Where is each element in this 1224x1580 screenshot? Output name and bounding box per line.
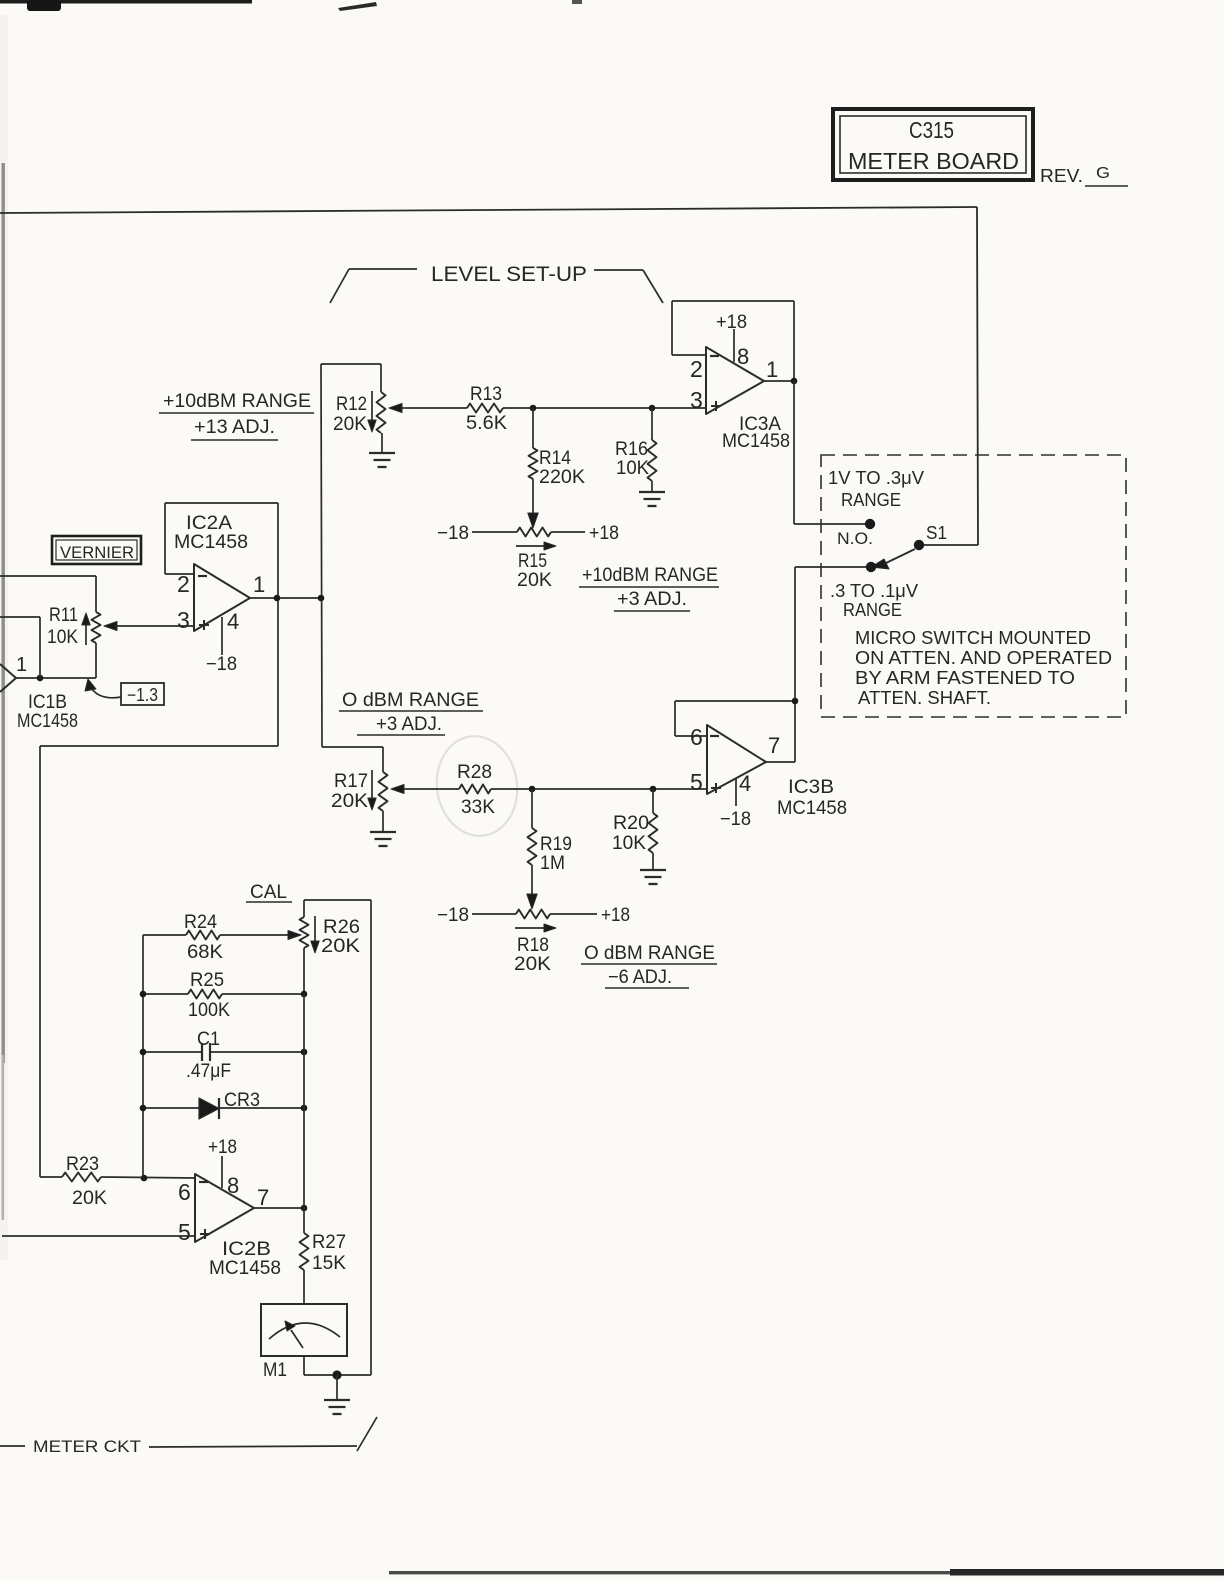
node: R25 right <box>301 991 308 998</box>
svg-text:−1.3: −1.3 <box>127 685 158 705</box>
wire: IC3B output pin7 <box>766 761 795 763</box>
wire: R14 to R15 wiper (arrow) <box>532 479 534 513</box>
svg-text:−18: −18 <box>437 905 469 926</box>
svg-text:R16: R16 <box>615 439 648 460</box>
svg-text:RANGE: RANGE <box>843 600 902 620</box>
resistor R24 68K <box>143 912 288 963</box>
label: O dBM RANGE -6 ADJ. <box>581 943 717 988</box>
node: junction R20 / IC3B pin5 <box>650 786 657 793</box>
svg-text:RANGE: RANGE <box>841 490 901 510</box>
resistor R14 220K <box>529 408 586 488</box>
node: IC3A output junction <box>791 378 798 385</box>
resistor R20 10K <box>612 789 658 869</box>
box: IC2A label / feedback <box>165 503 278 746</box>
svg-text:R12: R12 <box>336 394 367 415</box>
svg-text:C1: C1 <box>197 1029 220 1050</box>
svg-text:R13: R13 <box>470 384 502 405</box>
svg-text:R25: R25 <box>190 970 224 991</box>
node: IC2A output/feedback junction <box>274 595 281 602</box>
svg-text:R23: R23 <box>66 1154 99 1175</box>
ground below meter <box>324 1375 350 1414</box>
svg-text:+18: +18 <box>716 312 747 333</box>
svg-text:10K: 10K <box>612 833 646 854</box>
capacitor C1 .47uF <box>143 1029 304 1082</box>
wire: R13 to pin3 node <box>503 407 706 409</box>
op-amp IC2A MC1458 <box>165 564 265 633</box>
node: CR3 left <box>140 1105 147 1112</box>
wire: R26 bottom rail to output node <box>303 994 305 1208</box>
svg-text:100K: 100K <box>188 1000 230 1021</box>
svg-text:R11: R11 <box>49 605 78 626</box>
svg-text:BY ARM FASTENED TO: BY ARM FASTENED TO <box>855 668 1075 688</box>
svg-text:R17: R17 <box>334 771 368 792</box>
svg-text:1: 1 <box>766 357 778 382</box>
wire: R28 to pin5 node <box>491 788 707 790</box>
svg-text:20K: 20K <box>514 954 551 975</box>
revision label REV. G <box>1040 165 1128 186</box>
VERNIER label box <box>52 536 141 564</box>
svg-text:MC1458: MC1458 <box>722 431 790 452</box>
svg-text:R26: R26 <box>323 917 360 938</box>
svg-text:−6 ADJ.: −6 ADJ. <box>608 967 672 988</box>
potentiometer R11 10K <box>47 605 117 678</box>
svg-text:IC2B: IC2B <box>222 1239 271 1260</box>
svg-text:R27: R27 <box>312 1232 346 1253</box>
power -18 to IC3B pin 4 <box>720 771 751 830</box>
svg-text:.47μF: .47μF <box>186 1061 231 1082</box>
wire: R26 top to right rail <box>304 899 371 901</box>
wire: IC2B output pin 7 <box>254 1207 304 1209</box>
svg-text:C315: C315 <box>909 117 954 143</box>
svg-text:2: 2 <box>690 356 703 382</box>
svg-text:ON ATTEN. AND OPERATED: ON ATTEN. AND OPERATED <box>855 648 1112 668</box>
svg-text:33K: 33K <box>461 797 495 818</box>
svg-text:IC1B: IC1B <box>28 692 67 713</box>
svg-text:5.6K: 5.6K <box>466 413 507 434</box>
node: junction R16 / IC3A pin3 <box>649 405 656 412</box>
svg-text:4: 4 <box>739 771 751 796</box>
potentiometer R12 20K <box>333 364 408 452</box>
label: .3 TO .1uV RANGE <box>830 581 918 620</box>
svg-text:+3 ADJ.: +3 ADJ. <box>376 714 442 735</box>
wire: R23 to IC2B pin 6 <box>101 1177 195 1178</box>
svg-text:8: 8 <box>737 344 749 369</box>
ground below R17 <box>370 831 396 833</box>
svg-text:.3 TO .1μV: .3 TO .1μV <box>830 581 918 601</box>
wire: right rail (R26 top to meter return) <box>370 900 372 1375</box>
label: METER CKT with leader <box>0 1417 377 1456</box>
label: 1V TO .3uV RANGE <box>828 468 924 510</box>
svg-text:S1: S1 <box>926 523 947 543</box>
node: CR3 right <box>301 1105 308 1112</box>
svg-text:−18: −18 <box>437 523 469 544</box>
svg-text:LEVEL SET-UP: LEVEL SET-UP <box>431 263 587 286</box>
potentiometer R17 20K <box>331 770 407 831</box>
svg-text:CAL: CAL <box>250 882 287 903</box>
svg-text:7: 7 <box>257 1185 269 1210</box>
svg-text:CR3: CR3 <box>224 1090 260 1111</box>
svg-text:MC1458: MC1458 <box>777 798 847 819</box>
wire: top-left input to R11 top <box>0 576 96 612</box>
svg-text:R19: R19 <box>540 834 572 855</box>
svg-text:O dBM RANGE: O dBM RANGE <box>584 943 715 964</box>
svg-text:−18: −18 <box>206 654 237 675</box>
svg-text:+18: +18 <box>208 1137 237 1158</box>
resistor R16 10K <box>615 408 657 491</box>
node: C1 right <box>301 1049 308 1056</box>
op-amp IC3A MC1458 <box>672 347 790 452</box>
label: +10dBM RANGE +3 ADJ. <box>579 565 719 611</box>
wire: meter return to right rail <box>304 1356 371 1375</box>
wire: input bus from attenuator (top edge) to switch S1 <box>0 207 978 545</box>
op-amp IC2B MC1458 <box>178 1174 281 1279</box>
wire: R12 wiper to IC3A pin 3 <box>408 407 467 409</box>
node: IC2A output bus junction <box>318 595 325 602</box>
switch S1 lower contact (.3 to .1uV) <box>866 562 876 572</box>
svg-text:1M: 1M <box>540 853 565 874</box>
svg-text:O dBM RANGE: O dBM RANGE <box>342 690 479 711</box>
switch S1 N.O. contact <box>837 519 875 548</box>
diode CR3 <box>143 1090 304 1119</box>
svg-text:2: 2 <box>177 571 190 597</box>
resistor R25 100K <box>143 970 304 1021</box>
callout: -1.3 level with arrow <box>85 679 164 705</box>
wire: IC2A output to node A <box>250 597 321 599</box>
svg-text:+18: +18 <box>589 523 619 544</box>
svg-text:4: 4 <box>227 609 239 634</box>
op-amp IC3B MC1458 <box>675 724 847 819</box>
resistor R28 33K <box>457 762 495 818</box>
svg-text:220K: 220K <box>539 467 585 488</box>
label: LEVEL SET-UP header <box>330 263 663 303</box>
svg-text:IC2A: IC2A <box>186 513 232 534</box>
wire: R11 wiper to IC2A pin 3 <box>115 625 194 627</box>
meter M1 <box>261 1304 347 1381</box>
ground below R20 <box>640 869 666 871</box>
svg-text:15K: 15K <box>312 1253 346 1274</box>
wire: IC3B feedback output to pin 6 <box>675 701 795 762</box>
svg-text:R28: R28 <box>457 762 492 783</box>
svg-text:20K: 20K <box>72 1188 107 1209</box>
node: junction R28/R19 <box>529 786 536 793</box>
resistor R23 20K <box>62 1154 107 1209</box>
wire: IC1B junction up and off page left <box>0 617 40 678</box>
svg-text:68K: 68K <box>187 942 223 963</box>
wire: IC3A output down to N.O. contact <box>794 381 865 524</box>
wire: IC3A feedback output to pin 2 <box>672 301 794 381</box>
wire: IC2A feedback to R23 (left drop) <box>40 746 278 1177</box>
title block C315 METER BOARD <box>833 109 1033 180</box>
svg-text:M1: M1 <box>263 1360 287 1381</box>
svg-text:20K: 20K <box>331 791 368 812</box>
node: junction R13/R14 <box>530 405 537 412</box>
svg-text:1: 1 <box>16 654 27 676</box>
power -18 to IC2A pin 4 <box>206 609 239 675</box>
svg-text:R20: R20 <box>613 813 649 834</box>
svg-text:MICRO SWITCH MOUNTED: MICRO SWITCH MOUNTED <box>855 628 1091 648</box>
svg-text:R18: R18 <box>517 935 549 956</box>
wire: R24 left rail down to IC2B pin6 <box>142 935 144 1177</box>
power +18 to IC3A pin 8 <box>716 312 749 369</box>
resistor R13 5.6K <box>466 384 507 434</box>
wire: node A (IC2A output bus) vertical to R12/R17 <box>321 364 383 772</box>
svg-text:5: 5 <box>178 1219 191 1245</box>
switch S1 arm and pivot <box>871 523 947 569</box>
node: C1 left <box>140 1049 147 1056</box>
svg-text:10K: 10K <box>47 627 78 648</box>
node: R25 left <box>140 991 147 998</box>
wire: IC2B pin 5 input from page left <box>2 1235 195 1237</box>
wire: lower contact to IC3B feedback node <box>795 567 866 701</box>
node: meter ground junction <box>332 1370 341 1379</box>
svg-text:6: 6 <box>178 1179 191 1205</box>
wire: R19 to R18 wiper (arrow) <box>531 865 533 894</box>
svg-text:ATTEN. SHAFT.: ATTEN. SHAFT. <box>858 688 991 708</box>
svg-text:20K: 20K <box>517 570 552 591</box>
svg-text:+10dBM RANGE: +10dBM RANGE <box>163 391 311 412</box>
svg-text:N.O.: N.O. <box>837 529 873 548</box>
power +18 to IC2B pin 8 <box>208 1137 239 1198</box>
node: IC1B output junction <box>37 675 44 682</box>
svg-text:−18: −18 <box>720 809 751 830</box>
svg-text:20K: 20K <box>333 414 367 435</box>
svg-text:MC1458: MC1458 <box>209 1258 281 1279</box>
label: O dBM RANGE +3 ADJ. <box>339 690 483 735</box>
svg-text:+13 ADJ.: +13 ADJ. <box>194 417 275 438</box>
wire: IC1B output to R11 bottom <box>16 677 96 679</box>
resistor R27 15K <box>300 1208 347 1304</box>
svg-text:10K: 10K <box>616 458 649 479</box>
node: IC2B output junction <box>301 1205 308 1212</box>
svg-text:R15: R15 <box>518 551 547 572</box>
svg-text:+3 ADJ.: +3 ADJ. <box>617 589 687 610</box>
svg-text:IC3B: IC3B <box>788 777 834 798</box>
potentiometer R26 20K <box>288 900 360 994</box>
op-amp IC1B MC1458 (partial at page edge) <box>0 654 78 732</box>
svg-text:MC1458: MC1458 <box>17 711 78 732</box>
label: +10dBM RANGE +13 ADJ. <box>159 391 314 440</box>
ground below R12 <box>369 452 395 454</box>
svg-text:20K: 20K <box>321 936 360 957</box>
svg-text:MC1458: MC1458 <box>174 532 248 553</box>
ground below R16 <box>639 491 665 493</box>
svg-text:+18: +18 <box>601 905 630 926</box>
svg-text:1: 1 <box>253 572 265 597</box>
note: micro switch mounted on atten. <box>855 628 1112 708</box>
svg-text:R14: R14 <box>539 448 571 469</box>
svg-text:METER CKT: METER CKT <box>33 1437 141 1456</box>
svg-text:REV.: REV. <box>1040 166 1083 186</box>
svg-text:G: G <box>1096 165 1110 182</box>
node: junction R23 feedback <box>141 1175 148 1182</box>
node: IC3B feedback junction <box>792 698 799 705</box>
label: CAL <box>246 882 292 903</box>
svg-text:VERNIER: VERNIER <box>60 543 134 562</box>
svg-text:3: 3 <box>177 607 190 633</box>
annotation: pencil circle around R28 <box>430 731 523 841</box>
svg-text:7: 7 <box>768 733 780 758</box>
svg-text:+10dBM RANGE: +10dBM RANGE <box>582 565 718 586</box>
svg-text:5: 5 <box>690 769 703 795</box>
potentiometer R18 20K with supply rails <box>437 905 630 975</box>
svg-text:METER BOARD: METER BOARD <box>848 148 1019 174</box>
dashed enclosure: micro switch on attenuator <box>821 455 1126 717</box>
wire: IC3A output pin1 <box>764 380 794 382</box>
svg-text:1V TO .3μV: 1V TO .3μV <box>828 468 924 488</box>
potentiometer R15 20K with supply rails <box>437 523 619 591</box>
svg-text:R24: R24 <box>184 912 217 933</box>
resistor R19 1M <box>528 789 573 874</box>
svg-text:3: 3 <box>690 387 703 413</box>
wire: R17 wiper to IC3B pin 5 <box>407 788 459 790</box>
svg-text:6: 6 <box>690 724 703 750</box>
